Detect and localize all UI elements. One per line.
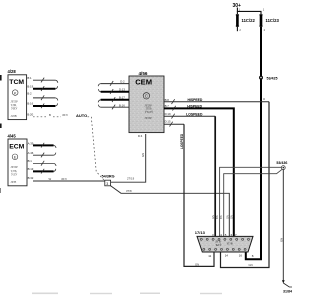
CEM pin B:8: [165, 98, 170, 102]
splice 53/425: [259, 76, 278, 81]
svg-text:B:8: B:8: [165, 98, 170, 102]
module TCM 4/28 designator: [8, 69, 17, 74]
svg-text:ЛГЛ: ЛГЛ: [62, 113, 68, 117]
pin 1 of fuse 11C/23: [263, 8, 265, 12]
svg-text:BN: BN: [215, 215, 219, 219]
svg-text:GN: GN: [249, 263, 253, 267]
svg-text:D:15: D:15: [165, 119, 171, 123]
svg-text:E: E: [14, 155, 17, 160]
wire TCM B:1 CAN (thin): [33, 78, 58, 83]
svg-text:R: R: [262, 98, 266, 100]
svg-text:3T/B: 3T/B: [227, 242, 233, 246]
svg-text:ЎЛЎ: ЎЛЎ: [11, 171, 18, 176]
connector 17/13 bottom row pins: [203, 248, 246, 250]
svg-text:14: 14: [225, 254, 229, 258]
connector 17/13 body (data link connector): [197, 236, 253, 252]
svg-text:D:4: D:4: [138, 134, 143, 138]
module CEM box: [129, 76, 164, 133]
wire TCM B:16 (thick): [33, 103, 58, 108]
ECM pin B:1: [28, 159, 33, 163]
svg-text:B:2: B:2: [27, 91, 32, 95]
svg-text:HISPEED: HISPEED: [188, 98, 203, 102]
svg-text:2T/19: 2T/19: [127, 177, 135, 181]
CEM pin D:2: [120, 80, 125, 84]
wire CEM B:7 HISPEED to connector 17/13 pin 7 (thick): [164, 104, 234, 238]
wire TCM B:20 dashed AUTO option: [33, 113, 105, 181]
CEM pin D:19: [165, 112, 171, 116]
ECM internal glyphs: [11, 165, 19, 184]
wire splice 53/436 to ground 31/84: [279, 170, 283, 282]
connector 54/3RG box: [105, 180, 111, 186]
TCM pin B:1: [27, 76, 32, 80]
svg-text:ЛЛВ: ЛЛВ: [11, 114, 17, 118]
CEM pin D:4: [138, 134, 143, 138]
connector 17/13 designator: [195, 230, 206, 235]
wire color labels above connector 17/13: [211, 215, 233, 219]
svg-text:54/3RG: 54/3RG: [102, 175, 115, 179]
TCM pin B:16: [27, 102, 33, 106]
svg-text:BN: BN: [219, 215, 223, 219]
svg-text:K: K: [14, 90, 17, 95]
svg-text:B:1: B:1: [27, 76, 32, 80]
svg-text:53/436: 53/436: [276, 161, 287, 165]
wire TCM B:2 (thin): [33, 95, 58, 100]
svg-text:4/28: 4/28: [8, 69, 17, 74]
svg-text:GN: GN: [225, 215, 229, 219]
svg-text:17/13: 17/13: [195, 230, 206, 235]
svg-text:53/425: 53/425: [267, 76, 278, 80]
svg-text:LOSPEED: LOSPEED: [180, 133, 184, 149]
CEM pin B:7: [165, 104, 170, 108]
wire ECM A:46 (thin): [33, 153, 56, 158]
wire color label on battery feed: [262, 98, 266, 100]
pin 2 of fuse 11C/23: [264, 28, 266, 32]
svg-text:B: B: [252, 254, 254, 258]
svg-text:LOSPEED: LOSPEED: [186, 112, 203, 116]
connector 17/13 pin numbers bottom 11 14 16: [208, 254, 242, 258]
svg-text:CEM: CEM: [135, 78, 152, 87]
svg-text:B: B: [49, 113, 51, 117]
wire battery feed from fuse 11C/23 down to connector 17/13 pin 16: [246, 27, 261, 260]
svg-text:GN: GN: [195, 262, 199, 266]
TCM pin B:2: [27, 91, 32, 95]
CEM pin B:16: [119, 103, 125, 107]
svg-text:D:19: D:19: [165, 112, 171, 116]
svg-text:W: W: [49, 177, 52, 181]
ground 31/84: [282, 280, 292, 293]
TCM pin B:19: [27, 84, 33, 88]
ECM E symbol: [12, 154, 18, 160]
svg-text:GN: GN: [211, 215, 215, 219]
CEM C symbol: [143, 93, 149, 99]
svg-text:11C/23: 11C/23: [266, 18, 280, 23]
fuse 11C/22: [236, 14, 256, 27]
svg-text:D:2: D:2: [120, 80, 125, 84]
TCM K symbol: [12, 90, 18, 96]
ECM pin B:13: [28, 167, 34, 171]
wire CEM B:8 HISPEED to connector 17/13 pin 14: [164, 98, 269, 268]
wire CEM D:19 LOSPEED to connector 17/13 pin 3: [164, 112, 215, 238]
svg-text:B:20: B:20: [27, 113, 33, 117]
svg-text:3T/8: 3T/8: [126, 189, 132, 193]
wire ECM B:32 K-line to connector 54/3RG: [33, 177, 105, 181]
svg-text:HISPEED: HISPEED: [187, 104, 202, 108]
wire 30+ feed bus: [237, 8, 261, 15]
svg-text:ЛГЛ: ЛГЛ: [61, 177, 67, 181]
wire CAN to CEM D:13 (thick): [98, 89, 129, 94]
svg-text:C: C: [145, 94, 148, 99]
CEM pin B:17: [119, 96, 125, 100]
svg-text:ЎЪЛЎ: ЎЪЛЎ: [145, 109, 154, 114]
wire ECM B:13 (thick): [33, 169, 56, 174]
svg-text:11: 11: [208, 254, 211, 258]
ECM pin A:46: [28, 151, 34, 155]
svg-text:ЎЙЎ: ЎЙЎ: [11, 106, 18, 111]
svg-text:A:39: A:39: [28, 141, 34, 145]
svg-text:A:46: A:46: [28, 151, 34, 155]
ECM pin B:32: [28, 176, 34, 180]
svg-text:4/45: 4/45: [8, 134, 17, 139]
svg-text:B:16: B:16: [27, 102, 33, 106]
wire 54/3RG to CEM pin D:4: [111, 134, 146, 182]
svg-text:GN: GN: [279, 238, 283, 242]
module CEM 4/56 designator: [139, 71, 148, 76]
connector 17/13 top row pins: [200, 238, 249, 240]
svg-text:B:19: B:19: [27, 84, 33, 88]
wire splice 53/436 to connector 17/13 pin 5 (ground): [224, 169, 283, 238]
connector 17/13 pin numbers top 3 4 5 6 7: [212, 233, 237, 237]
connector 54/3RG designator: [102, 175, 115, 179]
svg-text:GN: GN: [141, 153, 145, 157]
svg-text:ЛГВ: ЛГВ: [11, 180, 17, 184]
wire ECM B:1 (thin): [33, 161, 56, 166]
svg-text:B:1: B:1: [28, 159, 33, 163]
pin 1 of fuse 11C/22: [239, 8, 241, 12]
wire TCM B:19 CAN (thick): [33, 86, 58, 91]
svg-text:GN: GN: [229, 215, 233, 219]
CEM internal glyphs: [145, 103, 155, 120]
module ECM box: [8, 139, 27, 186]
wire color label SB near pin 16: [252, 254, 254, 258]
wire CEM D:15 LOSPEED to connector 17/13 pin 11: [164, 122, 214, 267]
scan artifact smudges bottom edge: [32, 293, 222, 295]
wire CAN to CEM D:2 (thin): [98, 81, 129, 86]
ECM pin A:39: [28, 141, 34, 145]
svg-text:3: 3: [106, 182, 108, 186]
svg-text:B:32: B:32: [28, 176, 34, 180]
svg-text:31/84: 31/84: [283, 290, 292, 294]
svg-text:AUTO: AUTO: [76, 113, 87, 118]
connector 17/13 internal glyphs: [215, 240, 232, 247]
scan artifact marks left edge: [0, 75, 2, 193]
TCM internal glyphs: [11, 100, 19, 119]
svg-text:ЛГЛР: ЛГЛР: [145, 116, 153, 120]
power rail 30+ label: [233, 3, 242, 9]
module TCM box: [8, 75, 27, 120]
module ECM 4/45 designator: [8, 134, 17, 139]
svg-text:ECM: ECM: [9, 144, 24, 151]
wire splice 53/436 to connector 17/13 pin 4 (ground): [220, 167, 282, 238]
pin 2 of fuse 11C/22: [237, 27, 241, 32]
CEM pin D:15: [165, 119, 171, 123]
svg-text:4/56: 4/56: [139, 71, 148, 76]
CEM pin D:13: [119, 88, 125, 92]
svg-text:TCM: TCM: [9, 79, 24, 86]
fuse 11C/23: [259, 14, 279, 27]
wire CAN to CEM B:16 (thin): [98, 105, 129, 110]
svg-text:11C/22: 11C/22: [242, 18, 256, 23]
svg-text:16: 16: [239, 254, 243, 258]
wire ECM A:39 (thick): [33, 143, 56, 148]
svg-text:ЪЛЎ: ЪЛЎ: [215, 242, 222, 247]
TCM pin B:20: [27, 113, 33, 117]
svg-text:B:13: B:13: [28, 167, 34, 171]
wire 54/3RG K-line to connector 17/13 pin 6: [111, 186, 230, 239]
wire CAN to CEM B:17 (thick): [98, 97, 129, 102]
splice 53/436: [276, 161, 287, 170]
